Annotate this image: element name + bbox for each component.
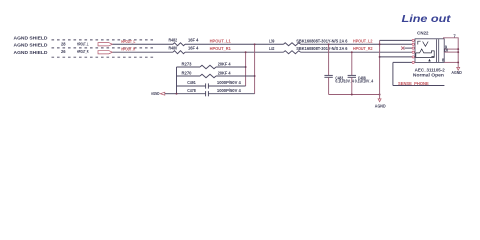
port arrow HPOUT_L	[98, 43, 112, 46]
svg-text:16F 4: 16F 4	[188, 38, 199, 43]
wire HPOUT_R2	[301, 51, 413, 53]
svg-text:R273: R273	[182, 61, 193, 66]
svg-text:20KF 4: 20KF 4	[218, 61, 231, 66]
wire HPOUT_L row	[112, 43, 173, 45]
svg-text:L42: L42	[269, 46, 275, 51]
svg-text:20KF 4: 20KF 4	[218, 70, 231, 75]
svg-text:1000P/50V 4: 1000P/50V 4	[217, 80, 242, 85]
svg-text:AGND SHIELD: AGND SHIELD	[14, 50, 48, 55]
svg-text:SBK160808T-301Y-N/S 2A 6: SBK160808T-301Y-N/S 2A 6	[296, 46, 348, 51]
ground AGND bottom middle	[378, 99, 381, 102]
capacitor C483	[324, 74, 332, 76]
svg-text:HPOUT_L: HPOUT_L	[77, 41, 89, 46]
node junction R270 right	[254, 75, 256, 77]
wire dashed AGND SHIELD 3	[52, 56, 154, 58]
wire HPOUT_L2	[301, 43, 413, 45]
wire cap ground rail	[329, 94, 380, 96]
svg-text:0.1U/10V_4: 0.1U/10V_4	[355, 79, 374, 84]
wire pin6 sense	[393, 61, 412, 63]
svg-text:1000P/50V 4: 1000P/50V 4	[217, 88, 242, 93]
svg-text:SENSE_PHONE: SENSE_PHONE	[398, 81, 429, 86]
svg-text:AGND SHIELD: AGND SHIELD	[14, 42, 48, 47]
wire dashed AGND SHIELD 2	[52, 47, 154, 49]
ground AGND right	[457, 67, 460, 70]
node junction HPOUT_R1 rail top	[245, 51, 247, 53]
wire rail from HPOUT_R1 down	[245, 52, 247, 86]
svg-text:R480: R480	[169, 45, 178, 50]
svg-text:CN22: CN22	[417, 31, 429, 36]
svg-text:R270: R270	[182, 70, 193, 75]
wire HPOUT_R row	[112, 51, 173, 53]
svg-text:C491: C491	[187, 80, 196, 85]
wire HPOUT_R1	[185, 51, 284, 53]
svg-text:HPOUT_L1: HPOUT_L1	[210, 38, 232, 43]
wire left rail of RC group	[176, 67, 178, 94]
svg-text:AGND: AGND	[375, 104, 386, 109]
svg-text:HPOUT_R2: HPOUT_R2	[353, 46, 373, 51]
port arrow HPOUT_R	[98, 51, 112, 54]
wire pin1 jog	[380, 39, 413, 41]
svg-text:Line out: Line out	[402, 14, 452, 25]
svg-text:C478: C478	[187, 88, 196, 93]
svg-text:AGND: AGND	[451, 70, 462, 75]
wire drop to C483	[328, 44, 330, 75]
svg-text:L39: L39	[269, 38, 275, 43]
wire dashed AGND SHIELD 1	[52, 39, 154, 41]
no-connect X on pin 3	[401, 47, 404, 50]
svg-text:28: 28	[61, 41, 66, 46]
svg-text:HPOUT_R1: HPOUT_R1	[210, 46, 232, 51]
jack tip contact	[418, 41, 421, 44]
svg-text:HPOUT_R: HPOUT_R	[77, 49, 89, 54]
wire pin5 sleeve	[380, 56, 413, 58]
node junction R273 right	[245, 66, 247, 68]
capacitor C488	[348, 74, 356, 76]
svg-text:26: 26	[61, 49, 66, 54]
svg-text:SBK160808T-301Y-N/S 2A 6: SBK160808T-301Y-N/S 2A 6	[296, 38, 348, 43]
svg-text:AGND SHIELD: AGND SHIELD	[14, 35, 48, 40]
svg-text:R482: R482	[169, 38, 178, 43]
wire drop to C488	[351, 52, 353, 75]
switch divider lines	[435, 39, 437, 62]
connector CN22 left pin circles	[412, 39, 414, 41]
wire rail from HPOUT_L1 down	[254, 44, 256, 93]
wire HPOUT_L1	[185, 43, 284, 45]
wire vertical to AGND under connector	[379, 40, 381, 99]
svg-text:HPOUT_L: HPOUT_L	[121, 39, 135, 44]
svg-text:Normal Open: Normal Open	[413, 72, 445, 77]
svg-text:HPOUT_R: HPOUT_R	[121, 47, 136, 52]
svg-text:HPOUT_L2: HPOUT_L2	[353, 38, 373, 43]
node junction HPOUT_L1 rail top	[254, 43, 256, 45]
svg-text:16F 4: 16F 4	[188, 45, 199, 50]
svg-text:AGND: AGND	[151, 91, 159, 96]
jack plug body	[416, 49, 434, 58]
